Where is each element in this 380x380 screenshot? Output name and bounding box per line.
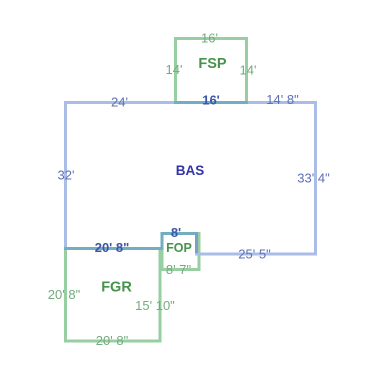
- svg-text:25' 5": 25' 5": [238, 247, 271, 262]
- svg-text:16': 16': [201, 31, 218, 46]
- svg-text:16': 16': [202, 93, 220, 108]
- svg-text:20' 8": 20' 8": [48, 287, 81, 302]
- svg-text:8' 7": 8' 7": [166, 262, 192, 277]
- svg-text:FGR: FGR: [101, 280, 132, 296]
- svg-text:FSP: FSP: [198, 56, 227, 72]
- svg-text:14' 8": 14' 8": [266, 92, 299, 107]
- svg-text:24': 24': [111, 95, 128, 110]
- svg-text:20' 8": 20' 8": [96, 333, 129, 348]
- svg-text:14': 14': [166, 62, 183, 77]
- svg-text:8': 8': [171, 225, 181, 240]
- svg-text:BAS: BAS: [176, 163, 205, 178]
- svg-text:15' 10": 15' 10": [135, 298, 175, 313]
- svg-text:32': 32': [58, 168, 75, 183]
- svg-text:14': 14': [240, 63, 257, 78]
- svg-text:FOP: FOP: [166, 241, 192, 255]
- svg-text:20' 8": 20' 8": [95, 240, 130, 255]
- svg-text:33' 4": 33' 4": [297, 171, 330, 186]
